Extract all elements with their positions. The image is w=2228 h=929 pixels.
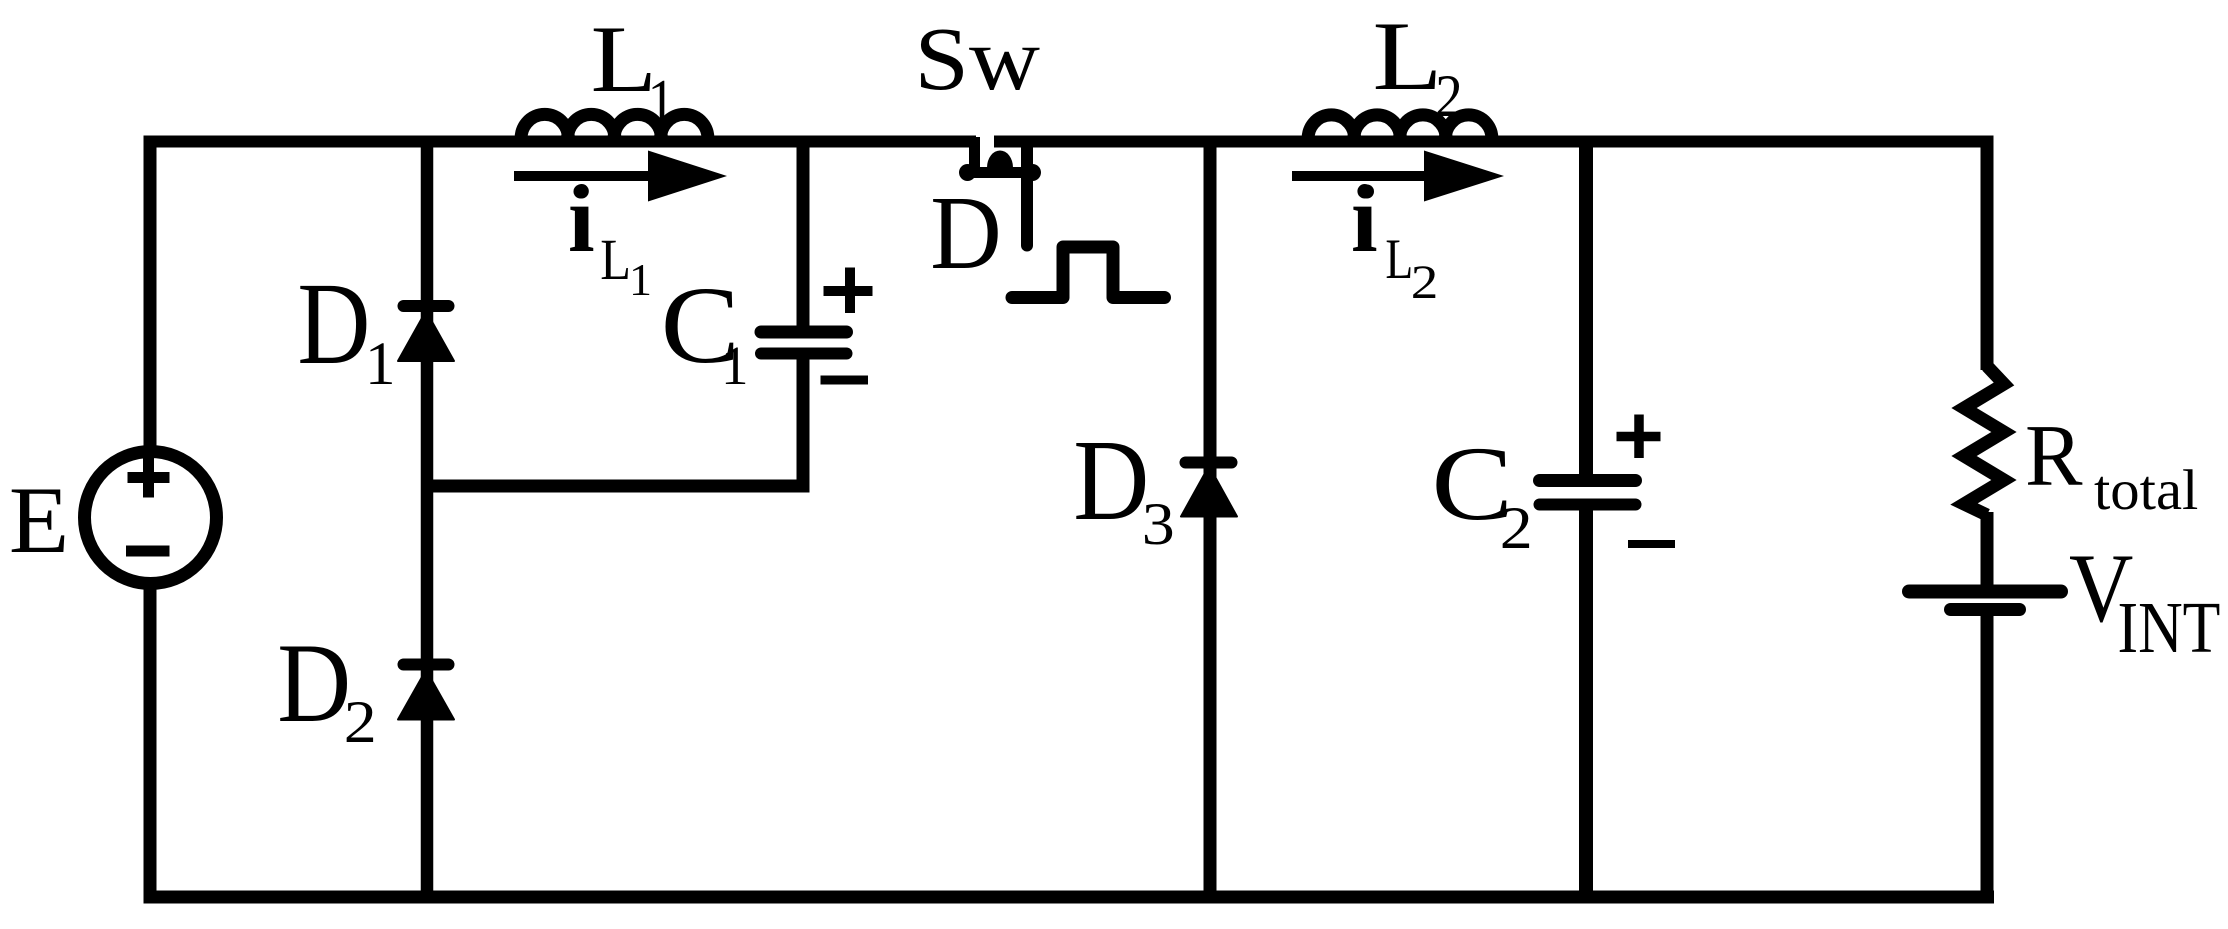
wire C1 branch lower + link to D branch [427,357,803,486]
wire top right segment [994,136,1994,148]
C2 minus [1628,540,1675,548]
svg-text:D: D [930,175,1001,291]
arrow iL1 [514,171,660,181]
svg-text:3: 3 [1142,491,1175,558]
battery VINT short plate [1951,603,2020,616]
svg-text:1: 1 [648,67,675,136]
wire right mid [1981,512,1994,586]
svg-text:i: i [1351,165,1378,272]
C2 plus [1617,415,1661,459]
wire right upper [1981,136,1994,371]
wire right lower [1981,612,1994,897]
svg-text:INT: INT [2118,587,2221,668]
source E circle [85,452,217,584]
svg-text:D: D [297,258,370,389]
wire top left segment [144,136,977,148]
capacitor C2 bottom plate [1540,499,1636,511]
resistor Rtotal zigzag [1964,366,2004,515]
switch Sw bar end dots [959,164,976,181]
svg-text:L: L [600,228,631,292]
svg-text:D: D [277,621,351,746]
C1 minus [821,376,869,385]
capacitor C1 bottom plate [761,348,847,360]
wire C2 branch upper [1579,136,1593,478]
diode D1 bar [404,300,449,312]
switch Sw right stub [1021,148,1033,246]
arrow iL2 [1292,171,1440,181]
svg-text:1: 1 [365,331,396,398]
diode D2 bar [404,659,449,671]
source E plus [128,458,170,498]
wire branch D1 D2 [421,136,434,898]
diode D3 bar [1186,457,1232,469]
switch Sw dome [987,151,1013,168]
wire C2 branch lower [1579,508,1593,897]
source E minus [126,546,170,557]
capacitor C1 top plate [761,326,847,339]
svg-text:i: i [568,165,595,272]
wire branch D3 [1204,136,1217,898]
inductor L1 [521,114,708,142]
svg-text:1: 1 [629,254,652,305]
capacitor C2 top plate [1540,474,1636,487]
svg-text:2: 2 [344,689,377,756]
svg-text:1: 1 [721,335,749,396]
wire bottom [144,891,1995,904]
diode D1 triangle [398,311,454,361]
svg-text:2: 2 [1411,256,1439,309]
svg-text:Sw: Sw [914,10,1040,109]
pulse waveform [1012,247,1165,298]
inductor L2 [1308,115,1492,142]
svg-text:E: E [9,468,69,573]
svg-text:D: D [1073,415,1149,544]
switch Sw left stub [969,137,980,170]
svg-text:R: R [2025,406,2083,504]
wire C1 branch upper [797,136,810,329]
diode D3 triangle [1181,466,1237,517]
battery VINT long plate [1909,585,2061,599]
switch Sw bar [966,167,1034,178]
C1 plus [824,268,873,314]
svg-text:L: L [1373,2,1443,111]
svg-text:2: 2 [1435,64,1463,130]
wire left upper [144,136,157,453]
svg-text:L: L [1385,228,1413,291]
wire left lower [144,584,157,897]
svg-text:2: 2 [1500,495,1533,562]
diode D2 triangle [398,670,454,720]
svg-text:total: total [2094,458,2198,522]
